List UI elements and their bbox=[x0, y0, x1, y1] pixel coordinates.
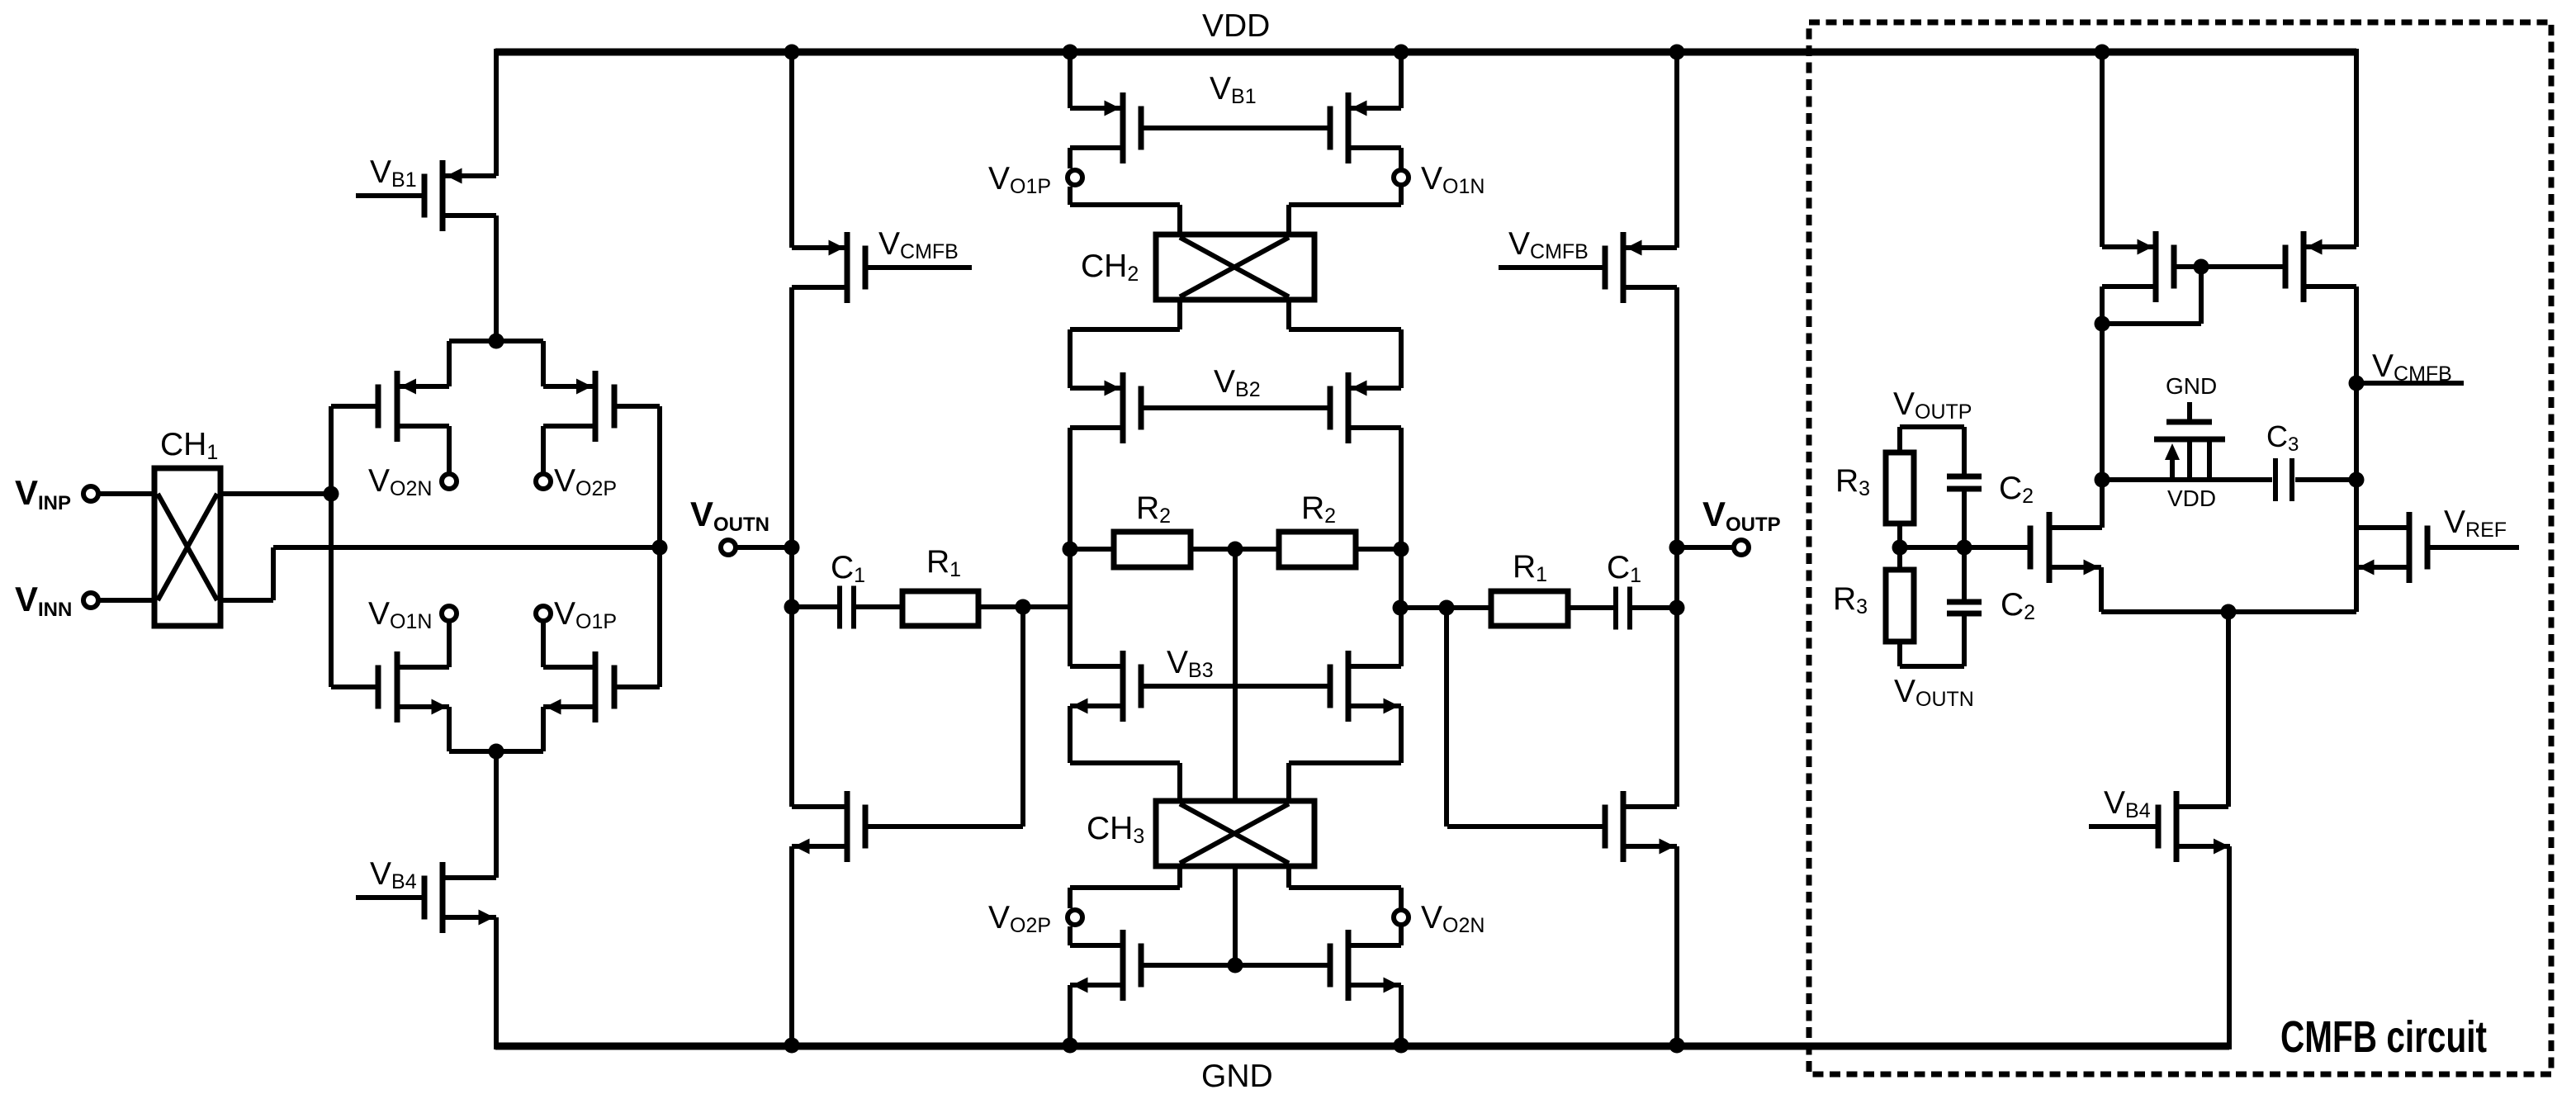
svg-text:VB2: VB2 bbox=[1214, 364, 1261, 401]
svg-text:VB4: VB4 bbox=[2104, 785, 2151, 822]
svg-text:CH1: CH1 bbox=[160, 427, 218, 464]
svg-text:VDD: VDD bbox=[2167, 486, 2216, 511]
svg-text:C1: C1 bbox=[1607, 550, 1641, 587]
svg-text:VOUTP: VOUTP bbox=[1702, 495, 1781, 536]
svg-text:VREF: VREF bbox=[2444, 504, 2507, 542]
svg-text:VOUTP: VOUTP bbox=[1893, 386, 1972, 424]
svg-text:VO2P: VO2P bbox=[988, 900, 1051, 937]
svg-text:GND: GND bbox=[2166, 373, 2217, 399]
svg-text:C2: C2 bbox=[1999, 471, 2034, 508]
svg-text:CH2: CH2 bbox=[1081, 249, 1139, 286]
svg-text:VINP: VINP bbox=[15, 473, 71, 514]
svg-text:VB3: VB3 bbox=[1167, 645, 1214, 682]
svg-text:VO1N: VO1N bbox=[368, 596, 432, 633]
svg-text:R2: R2 bbox=[1136, 490, 1171, 528]
svg-text:CMFB circuit: CMFB circuit bbox=[2280, 1012, 2487, 1062]
svg-text:VB1: VB1 bbox=[370, 154, 417, 192]
svg-text:R3: R3 bbox=[1835, 463, 1870, 500]
svg-text:VOUTN: VOUTN bbox=[1894, 674, 1974, 711]
svg-text:VB4: VB4 bbox=[370, 856, 417, 893]
svg-text:VB1: VB1 bbox=[1210, 71, 1257, 108]
svg-text:C1: C1 bbox=[831, 550, 865, 587]
svg-text:C3: C3 bbox=[2266, 419, 2299, 456]
svg-text:VOUTN: VOUTN bbox=[690, 495, 769, 536]
svg-text:R3: R3 bbox=[1833, 581, 1868, 618]
svg-text:R1: R1 bbox=[1513, 549, 1547, 586]
svg-text:VO2N: VO2N bbox=[368, 463, 432, 500]
svg-text:VO1P: VO1P bbox=[988, 161, 1051, 198]
svg-text:VO1N: VO1N bbox=[1421, 161, 1485, 198]
svg-text:VO2N: VO2N bbox=[1421, 900, 1485, 937]
svg-text:C2: C2 bbox=[2001, 587, 2035, 624]
svg-text:VDD: VDD bbox=[1202, 8, 1270, 44]
svg-text:VCMFB: VCMFB bbox=[878, 226, 959, 263]
svg-text:GND: GND bbox=[1201, 1059, 1273, 1094]
svg-text:VCMFB: VCMFB bbox=[2372, 348, 2452, 386]
svg-text:R2: R2 bbox=[1301, 490, 1336, 528]
svg-text:VO2P: VO2P bbox=[554, 463, 617, 500]
svg-text:CH3: CH3 bbox=[1087, 811, 1144, 848]
svg-text:VINN: VINN bbox=[15, 580, 72, 621]
svg-text:VCMFB: VCMFB bbox=[1508, 226, 1589, 263]
svg-text:VO1P: VO1P bbox=[554, 596, 617, 633]
svg-text:R1: R1 bbox=[926, 544, 961, 581]
